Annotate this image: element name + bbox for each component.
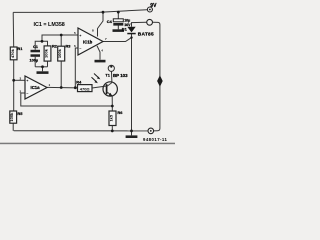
wire IC1b -in vertical — [75, 48, 78, 88]
ground 0V rail — [126, 135, 138, 138]
connector diamond — [157, 75, 163, 86]
diode D1 — [122, 26, 154, 37]
node dot D1 output — [130, 36, 132, 38]
svg-text:R3: R3 — [66, 44, 72, 49]
svg-text:T1: T1 — [105, 73, 109, 77]
node dot IC1b -in — [74, 86, 77, 89]
resistor R6 — [109, 110, 124, 125]
bottom rule — [0, 143, 175, 145]
transistor T1 BP103 — [103, 73, 128, 96]
svg-text:R1: R1 — [17, 46, 23, 51]
node dot R3 bottom — [60, 86, 63, 89]
op-amp IC1b — [74, 28, 107, 55]
node dot C1/R2 gnd — [41, 65, 44, 68]
wire terminal K2 down right side — [153, 22, 160, 131]
svg-text:C4: C4 — [107, 19, 113, 24]
wire R5 to 0V rail — [12, 123, 14, 131]
wire R6 bottom stub — [111, 126, 113, 131]
svg-text:R6: R6 — [117, 110, 123, 115]
wire R1 to node A — [13, 60, 15, 81]
wire IC1b +in horizontal — [42, 35, 78, 41]
ground IC1b pin4 — [95, 60, 106, 63]
wire R2 bottom — [47, 61, 49, 67]
svg-text:IC1 = LM358: IC1 = LM358 — [34, 22, 65, 28]
resistor R3 — [57, 44, 71, 61]
svg-text:R5: R5 — [17, 111, 23, 116]
node A dot — [12, 79, 15, 82]
node dot C4 rail — [117, 11, 120, 14]
wire 0V ground stub — [131, 131, 133, 136]
svg-text:BP 103: BP 103 — [113, 73, 128, 78]
node dot feedback emitter — [111, 105, 114, 108]
svg-text:IC1a: IC1a — [31, 85, 41, 90]
svg-text:C1: C1 — [33, 44, 39, 49]
svg-text:470Ω: 470Ω — [80, 86, 91, 91]
wire C1/R2 ground link — [35, 66, 47, 68]
svg-text:100µ: 100µ — [30, 59, 39, 63]
wire IC1b pin4 ground — [97, 46, 100, 60]
wire D1 anode to terminal — [132, 22, 147, 27]
terminal K3 — [148, 128, 154, 134]
wire top 9V rail — [13, 10, 147, 13]
svg-text:948017-11: 948017-11 — [143, 137, 168, 142]
wire T1 emitter to R6 — [111, 96, 113, 111]
wire T1 collector stub — [110, 70, 113, 82]
node dot R6 rail — [111, 130, 114, 133]
wire R3 top stub — [60, 35, 62, 46]
svg-text:9V: 9V — [150, 3, 157, 9]
capacitor C4 — [107, 19, 131, 27]
wire D1 cathode down to 0V rail — [131, 34, 133, 131]
svg-text:BAT85: BAT85 — [138, 31, 154, 37]
svg-text:R4: R4 — [76, 79, 82, 84]
ground C4 — [113, 29, 125, 32]
node collector terminal — [108, 65, 114, 71]
terminal 9V — [147, 3, 157, 12]
resistor R5 — [9, 111, 23, 123]
svg-text:R2: R2 — [52, 44, 58, 49]
wire node A to R5 — [13, 80, 15, 111]
ground C1/R2 — [37, 71, 49, 74]
wire ground stub node C — [42, 67, 44, 72]
resistor R2 — [44, 44, 58, 62]
svg-text:1k5: 1k5 — [109, 114, 114, 121]
svg-text:IC1b: IC1b — [83, 39, 93, 44]
wire bottom 0V rail — [14, 130, 148, 132]
terminal K2 — [147, 19, 153, 25]
capacitor C1 — [30, 44, 41, 63]
wire left vertical from rail to R1 — [12, 12, 15, 47]
resistor R1 — [10, 46, 23, 60]
wire IC1a output line — [47, 86, 78, 89]
wire IC1a -in loop — [21, 93, 113, 106]
wire C1 bottom — [34, 57, 36, 67]
svg-text:D1: D1 — [122, 26, 128, 31]
node dot R3 top — [60, 34, 63, 37]
svg-text:470k: 470k — [10, 48, 15, 58]
light arrow 1 — [94, 74, 100, 80]
node dot pin8 rail — [102, 11, 105, 14]
node B dot — [41, 40, 44, 43]
node dot D1 rail — [130, 130, 133, 133]
wire IC1b output to D1 node — [103, 38, 132, 42]
wire C4 top lead — [117, 12, 119, 19]
wire C4 bottom lead — [117, 26, 119, 30]
wire node B to R2 top — [42, 41, 48, 46]
wire R4 to T1 base — [92, 86, 107, 88]
wire node A to IC1a +in — [14, 79, 25, 81]
svg-text:100k: 100k — [57, 48, 62, 58]
svg-text:100k: 100k — [9, 112, 14, 122]
wire IC1b pin8 supply — [98, 12, 104, 36]
light arrow 2 — [92, 77, 98, 83]
svg-text:100k: 100k — [44, 48, 49, 58]
wire R3 bottom to output line — [60, 61, 62, 87]
wire node B to C1 top — [35, 41, 42, 50]
op-amp IC1a — [20, 76, 51, 99]
resistor R4 — [76, 79, 92, 91]
